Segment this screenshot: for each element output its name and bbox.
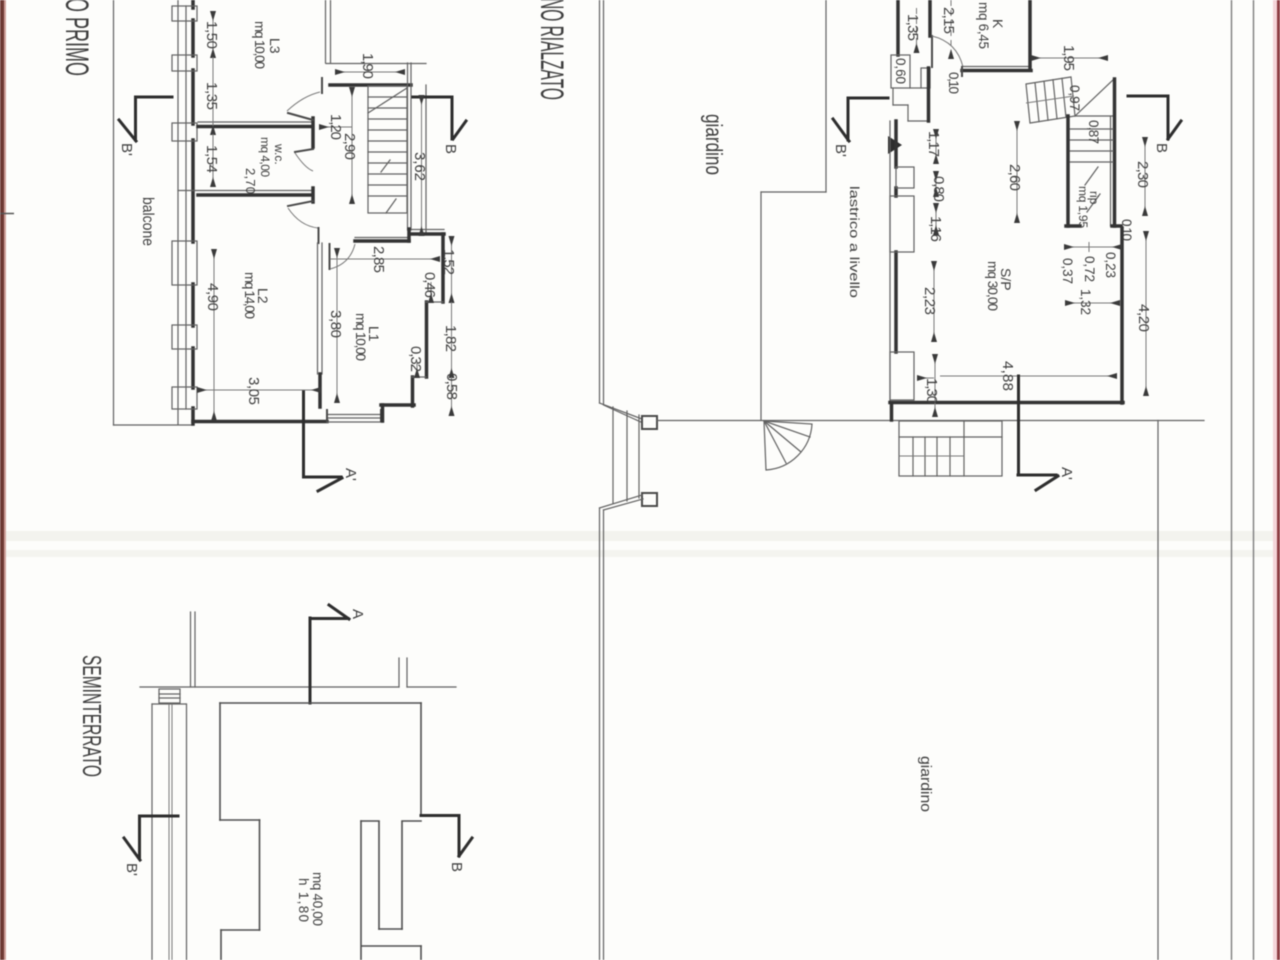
svg-text:mq 10,00: mq 10,00 — [353, 313, 368, 361]
stray scan tick left margin — [0, 213, 14, 215]
interior dims left — [934, 130, 936, 416]
dim 2,15 dashed — [950, 0, 952, 58]
svg-text:0,60: 0,60 — [893, 58, 908, 84]
K right wall — [1028, 0, 1032, 70]
stair break marks — [1085, 167, 1098, 185]
dim 1,95 — [1032, 57, 1107, 59]
svg-text:B': B' — [118, 143, 135, 156]
svg-text:0,46: 0,46 — [421, 272, 438, 298]
stair steps — [1070, 129, 1113, 162]
svg-text:B: B — [448, 862, 465, 872]
svg-text:1,32: 1,32 — [1078, 289, 1093, 315]
ramp strip left — [152, 704, 187, 960]
external stair grate — [899, 421, 1002, 476]
corridor step wall — [408, 229, 444, 231]
left wall windows — [172, 6, 197, 409]
svg-text:giardino: giardino — [917, 756, 934, 812]
svg-text:1,95: 1,95 — [1060, 45, 1077, 71]
K door — [932, 36, 963, 67]
section B' marker seminterrato — [124, 816, 178, 860]
wall stub above boundary — [191, 612, 196, 687]
wc bottom wall — [178, 190, 311, 192]
svg-text:giardino: giardino — [701, 114, 727, 175]
svg-text:PIANO RIALZATO: PIANO RIALZATO — [534, 0, 570, 100]
svg-text:h 1,80: h 1,80 — [296, 878, 311, 922]
svg-text:mq 30,00: mq 30,00 — [985, 261, 1000, 311]
svg-text:SEMINTERRATO: SEMINTERRATO — [77, 655, 107, 777]
svg-text:2,23: 2,23 — [921, 287, 938, 315]
door corridor to L2 — [330, 244, 356, 269]
wc right wall lower — [311, 188, 315, 202]
wc top wall — [198, 121, 313, 123]
svg-text:lastrico a livello: lastrico a livello — [847, 186, 861, 298]
upper boundary line — [140, 686, 456, 688]
left facade outer face — [177, 0, 179, 424]
L1 bottom and right stepped wall — [381, 234, 443, 421]
door wc wall to L2 — [288, 201, 319, 243]
svg-text:1,35: 1,35 — [203, 82, 220, 110]
svg-text:2,85: 2,85 — [370, 246, 387, 273]
dim 4,20 — [1145, 232, 1147, 395]
dim 3,80 — [336, 249, 338, 402]
arrow tick into left wall at 1,30 — [918, 377, 934, 379]
seam diagonal to upper square — [600, 403, 644, 423]
svg-text:w.c.: w.c. — [272, 143, 286, 165]
left page border maroon — [0, 0, 4, 960]
svg-text:0,37: 0,37 — [1060, 258, 1075, 284]
svg-text:PIANO PRIMO: PIANO PRIMO — [59, 0, 95, 76]
long terrace line from seam square to right — [657, 420, 1204, 422]
L2 bottom wall — [193, 420, 327, 424]
dim 2,60 — [1016, 122, 1018, 222]
vertical boundary dropping from terrace line — [1157, 421, 1159, 960]
svg-text:A': A' — [342, 468, 359, 481]
svg-text:1,54: 1,54 — [203, 145, 220, 173]
entry niche 0,60 — [891, 55, 930, 121]
svg-text:mq 40,00: mq 40,00 — [310, 872, 325, 926]
dim 1,90 — [336, 71, 404, 73]
svg-text:0,23: 0,23 — [1103, 252, 1118, 278]
seam upper registration square — [642, 416, 657, 429]
section B' marker rialzato — [833, 98, 888, 141]
wc right wall upper — [311, 118, 315, 147]
svg-text:mq 4,00: mq 4,00 — [258, 137, 272, 177]
scan fold smudge band — [0, 531, 1280, 541]
section A' marker primo — [304, 392, 343, 491]
section A marker seminterrato — [310, 605, 349, 703]
svg-text:balcone: balcone — [139, 197, 156, 246]
garage outline — [220, 703, 421, 960]
stair hall top wall — [326, 63, 426, 65]
svg-text:B: B — [442, 144, 459, 154]
svg-text:L3: L3 — [267, 38, 283, 54]
seam middle vertical ties — [613, 407, 639, 503]
top-right small dims — [1065, 242, 1121, 303]
right page border: inner frame lines — [1231, 0, 1233, 960]
section B marker primo — [413, 97, 466, 139]
light well box — [159, 689, 180, 703]
seam lower registration square — [642, 493, 657, 506]
svg-text:3,62: 3,62 — [411, 152, 428, 181]
door L3 to stair hall — [287, 78, 322, 120]
dim 2,85 — [330, 258, 439, 260]
balcone outline — [114, 0, 194, 425]
section A' marker rialzato — [1018, 376, 1058, 490]
stair wall feet — [1066, 224, 1080, 228]
svg-text:2,70: 2,70 — [243, 168, 258, 194]
svg-text:mq 14,00: mq 14,00 — [242, 272, 257, 319]
entry direction triangle — [888, 136, 902, 154]
svg-text:0,58: 0,58 — [443, 373, 460, 400]
giardino boundary upper right — [761, 0, 826, 420]
seam diagonal from lower square — [600, 495, 644, 510]
svg-text:A': A' — [1058, 467, 1075, 480]
stair right wall — [408, 63, 427, 234]
svg-text:2,30: 2,30 — [1134, 161, 1151, 188]
chimney stubs — [399, 658, 407, 687]
svg-text:0,87: 0,87 — [1086, 120, 1101, 144]
right page border pink/maroon edge — [1273, 0, 1277, 960]
stair block — [368, 86, 407, 213]
svg-text:0,10: 0,10 — [946, 72, 961, 94]
svg-text:2,90: 2,90 — [341, 133, 358, 160]
svg-text:K: K — [990, 19, 1006, 29]
S/P right wall — [1120, 228, 1124, 403]
svg-text:4,88: 4,88 — [999, 361, 1016, 391]
svg-text:3,80: 3,80 — [327, 310, 344, 338]
upper outer wall — [896, 0, 900, 55]
sheet seam divider lower vertical pair — [600, 508, 604, 960]
section B' marker primo — [119, 97, 172, 141]
sheet seam divider upper vertical pair — [600, 0, 604, 404]
svg-text:1,52: 1,52 — [440, 249, 457, 275]
rialzato left wall — [889, 121, 891, 403]
svg-text:mq 10,00: mq 10,00 — [252, 21, 267, 69]
K bottom wall — [962, 66, 1031, 68]
svg-text:mq 6,45: mq 6,45 — [976, 2, 991, 49]
section B marker rialzato — [1128, 96, 1181, 139]
svg-text:1,82: 1,82 — [442, 325, 459, 352]
dim column left — [213, 12, 214, 420]
svg-text:2,15: 2,15 — [940, 7, 957, 34]
svg-text:2,60: 2,60 — [1006, 164, 1023, 191]
section B marker seminterrato — [421, 816, 472, 857]
dims right of L1 — [417, 237, 452, 415]
svg-text:1,16: 1,16 — [927, 216, 944, 242]
svg-text:1,50: 1,50 — [203, 21, 220, 49]
svg-text:B': B' — [123, 863, 140, 876]
winder stair slanted block — [1026, 77, 1075, 123]
dim 1,35 entry — [916, 8, 918, 52]
dim 4,88 — [940, 375, 1116, 377]
svg-text:0,32: 0,32 — [407, 346, 424, 372]
svg-text:4,90: 4,90 — [204, 283, 221, 311]
dim 2,30 — [1144, 138, 1146, 215]
wall L2/L1 — [318, 243, 323, 374]
svg-text:4,20: 4,20 — [1135, 304, 1152, 332]
svg-text:0,97: 0,97 — [1067, 85, 1082, 111]
svg-text:A: A — [349, 609, 366, 619]
svg-text:1,17: 1,17 — [925, 131, 942, 157]
K room left wall — [928, 0, 932, 36]
stair break marks — [381, 160, 390, 172]
svg-text:B: B — [1153, 143, 1170, 153]
bottom window — [327, 415, 383, 423]
stair diagonal — [368, 88, 407, 113]
svg-text:1,90: 1,90 — [359, 53, 376, 79]
dim 2,90 — [351, 88, 353, 203]
external winder steps fan at terrace — [764, 421, 812, 470]
dim 3,62 — [421, 96, 423, 235]
svg-text:1,30: 1,30 — [923, 378, 940, 404]
svg-text:B': B' — [832, 144, 849, 157]
S/P bottom wall — [890, 401, 1123, 405]
wall stub to terrace line — [890, 403, 894, 420]
svg-text:0,72: 0,72 — [1082, 256, 1097, 282]
svg-text:0,80: 0,80 — [930, 176, 947, 202]
stair triangle — [1075, 79, 1114, 116]
L3 right wall pair — [326, 0, 331, 63]
dim 3,05 — [198, 389, 320, 391]
corridor bottom wall — [355, 237, 408, 239]
garage interior pillar — [361, 821, 421, 960]
wc door to hall — [295, 149, 313, 171]
stair walls — [1066, 116, 1070, 226]
svg-text:1,35: 1,35 — [904, 14, 921, 41]
left wall thick segments — [191, 0, 195, 424]
left wall windows — [890, 167, 914, 400]
svg-text:3,05: 3,05 — [245, 377, 262, 405]
dim 1,20 — [320, 126, 352, 128]
svg-text:mq 1,95: mq 1,95 — [1076, 186, 1090, 228]
